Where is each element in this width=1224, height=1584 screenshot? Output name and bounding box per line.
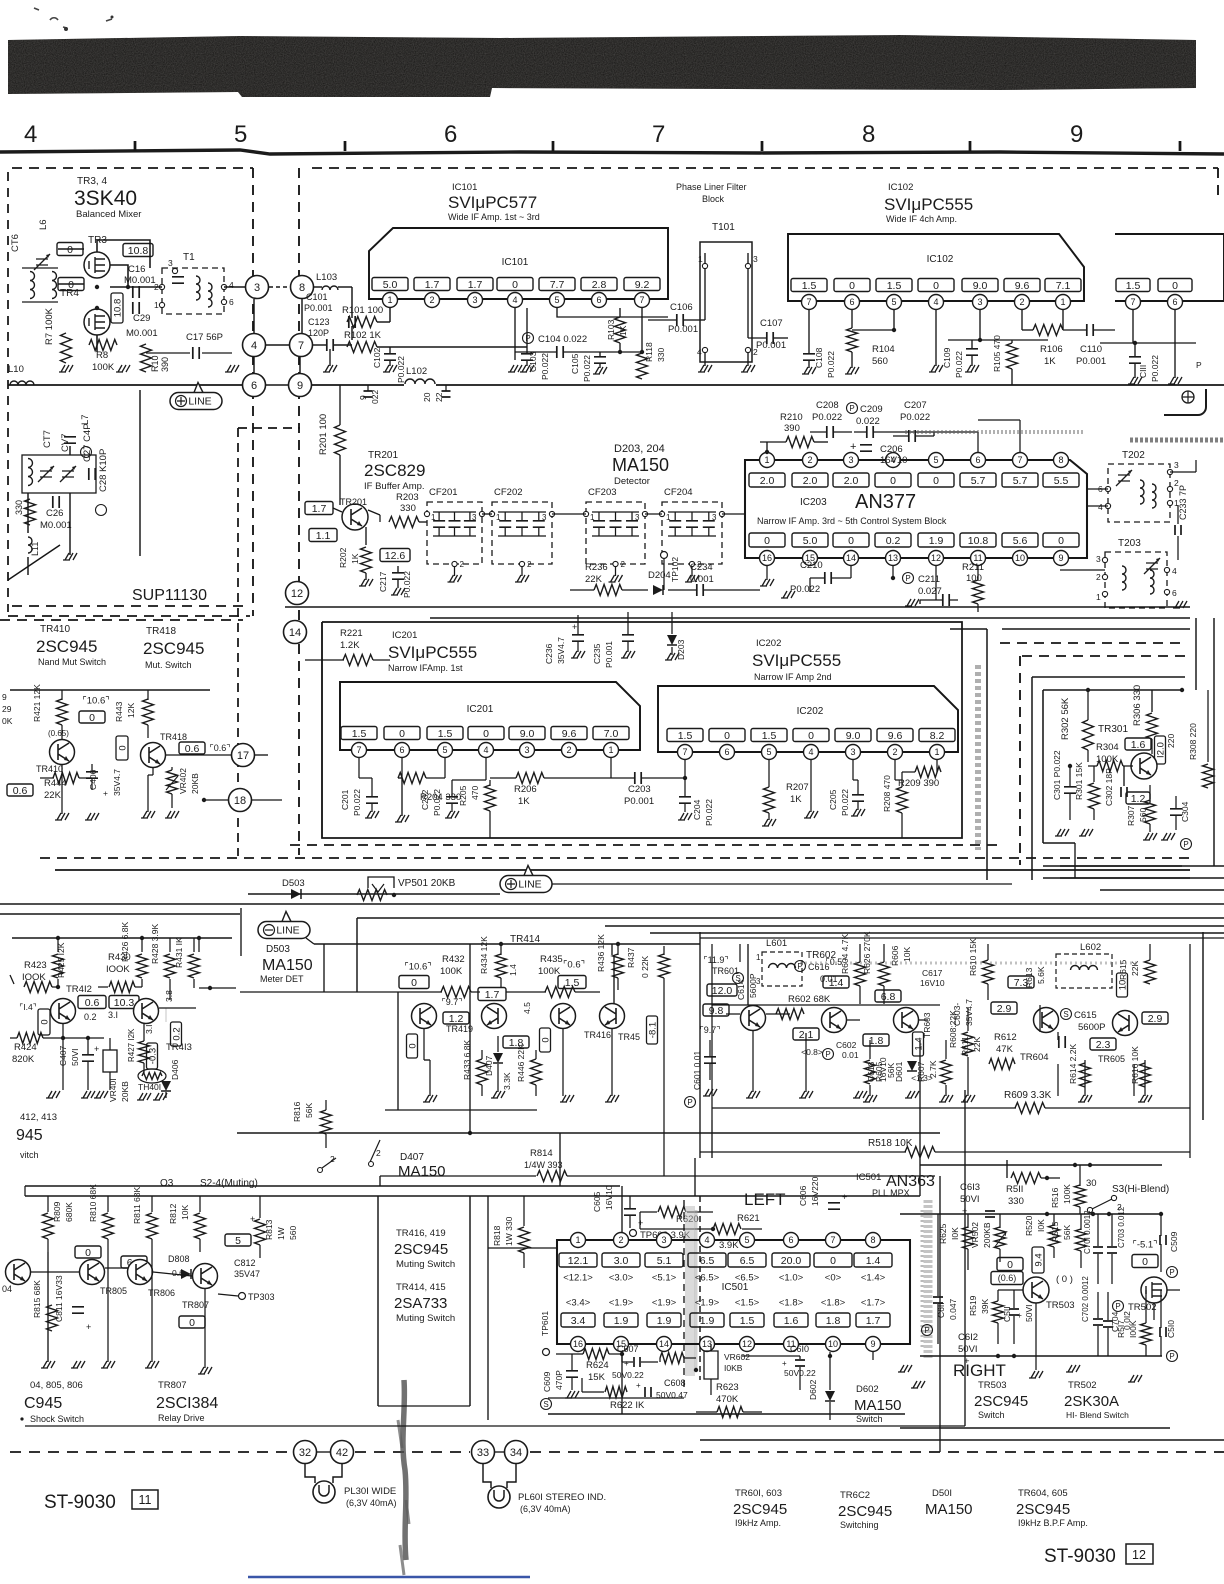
svg-text:R221: R221 <box>340 628 363 639</box>
svg-text:⌜9.7⌝: ⌜9.7⌝ <box>442 997 463 1007</box>
IC501 pin 13 <box>700 1337 715 1352</box>
svg-text:1.7: 1.7 <box>312 503 327 515</box>
svg-text:Narrow IF Amp. 3rd ~ 5th: Narrow IF Amp. 3rd ~ 5th Control System … <box>757 516 947 526</box>
bottom block top rail 1 <box>25 1185 620 1187</box>
svg-text:5.0: 5.0 <box>383 279 398 291</box>
voltage box 10.8 vertical at TR4 <box>111 293 123 323</box>
svg-text:0: 0 <box>85 1247 91 1259</box>
IC101 voltage box 1.7 pin 3 <box>457 278 493 291</box>
svg-text:R626 270K: R626 270K <box>862 931 872 974</box>
svg-text:P: P <box>924 1326 929 1335</box>
svg-text:17: 17 <box>237 750 249 762</box>
svg-text:1W 330: 1W 330 <box>504 1216 514 1246</box>
svg-text:(6,3V 40mA): (6,3V 40mA) <box>346 1498 397 1508</box>
resistor R103 <box>615 317 626 343</box>
svg-text:20: 20 <box>422 392 432 402</box>
vertical feed lines right mid <box>711 944 713 1120</box>
svg-text:5.7: 5.7 <box>1013 475 1028 487</box>
capacitor C107 <box>767 332 773 344</box>
CF202 pin 1 <box>489 511 494 516</box>
svg-text:1: 1 <box>666 513 671 522</box>
IC102 pin 5 <box>887 295 902 310</box>
resistor R304 zigzag <box>1097 761 1123 772</box>
svg-text:Shock Switch: Shock Switch <box>30 1414 84 1424</box>
svg-text:C70I 0.0012: C70I 0.0012 <box>1083 1210 1092 1254</box>
AN377 pin 12 <box>929 551 944 566</box>
wire TR502 legs <box>1153 1303 1155 1320</box>
capacitor C701 <box>1093 1247 1103 1253</box>
transistor TR416 <box>551 1004 576 1029</box>
svg-text:16V220: 16V220 <box>810 1176 820 1206</box>
voltage box 0.2 vertical <box>171 1022 183 1046</box>
svg-text:100K: 100K <box>440 966 463 977</box>
trimmer VR402 <box>167 770 178 794</box>
wire T1 to connector 3 <box>224 286 246 288</box>
svg-text:1.4: 1.4 <box>508 964 518 976</box>
svg-text:TR60I, 603: TR60I, 603 <box>735 1488 782 1499</box>
svg-text:R604 4.7K: R604 4.7K <box>840 934 850 974</box>
resistor R102 <box>347 342 377 353</box>
svg-text:C603-: C603- <box>952 1003 962 1026</box>
IC501 voltage box bottom 1.5 <box>730 1313 764 1327</box>
right block horizontal lines <box>1002 606 1190 608</box>
thermistor TH401 <box>138 1069 166 1083</box>
IC101 pin 1 <box>383 293 398 308</box>
capacitor C605 <box>624 1209 636 1215</box>
svg-text:T202: T202 <box>1122 450 1145 461</box>
svg-text:32: 32 <box>299 1447 311 1459</box>
svg-text:7: 7 <box>356 745 361 755</box>
IC102 pin 4 <box>929 295 944 310</box>
svg-text:vitch: vitch <box>20 1150 39 1160</box>
svg-text:1.7: 1.7 <box>485 989 500 1001</box>
svg-text:2SC945: 2SC945 <box>733 1501 787 1518</box>
svg-text:TP102: TP102 <box>670 557 680 582</box>
resistor R615 <box>1145 960 1156 984</box>
svg-text:<1.8>: <1.8> <box>779 1297 804 1308</box>
svg-text:1.9: 1.9 <box>700 1315 715 1327</box>
svg-text:R443: R443 <box>114 701 124 722</box>
svg-text:1.9: 1.9 <box>929 535 944 547</box>
svg-text:R424: R424 <box>14 1042 37 1053</box>
svg-text:R427 I2K: R427 I2K <box>127 1028 136 1062</box>
grounds TR301 block <box>1055 829 1069 836</box>
capacitor C17 <box>193 347 199 359</box>
svg-text:6: 6 <box>229 297 234 307</box>
IC201 pin 2 <box>562 743 577 758</box>
wire pin3 bus <box>979 310 981 340</box>
transistor TR807 <box>193 1264 218 1289</box>
junction dots main buses <box>0 1583 1 1584</box>
svg-text:P: P <box>849 404 854 413</box>
svg-text:1.4: 1.4 <box>913 1037 924 1050</box>
svg-text:2: 2 <box>621 560 626 569</box>
svg-text:R203: R203 <box>396 492 419 503</box>
TP602 test point <box>630 1230 637 1237</box>
AN377 pin 3 <box>844 453 859 468</box>
ground C17 right <box>225 365 239 372</box>
svg-text:412, 413: 412, 413 <box>20 1112 57 1123</box>
AN377 voltage box 2.0 pin 1 <box>749 473 785 487</box>
svg-text:TR301: TR301 <box>1098 724 1128 735</box>
svg-text:1.5: 1.5 <box>678 730 693 742</box>
svg-text:TR805: TR805 <box>100 1286 127 1296</box>
svg-text:D407: D407 <box>400 1152 424 1163</box>
AN377 voltage box 1.9 pin 12 <box>918 533 954 547</box>
voltage box 0.3 vertical <box>147 1043 159 1069</box>
svg-text:1: 1 <box>756 953 761 962</box>
solid enclosure around narrow IF amps <box>322 622 962 838</box>
svg-text:SVIμPC577: SVIμPC577 <box>448 193 537 212</box>
svg-text:50VI: 50VI <box>960 1194 980 1205</box>
svg-text:6.5: 6.5 <box>740 1255 755 1267</box>
IC101 voltage box 5.0 pin 1 <box>372 278 408 291</box>
capacitor C509 <box>1160 1235 1166 1245</box>
IC201 voltage box 0 pin 4 <box>468 727 504 740</box>
resistor R518 <box>905 1147 935 1158</box>
svg-text:C304: C304 <box>1180 801 1190 822</box>
svg-text:L6: L6 <box>38 219 49 230</box>
svg-text:3: 3 <box>1174 460 1179 470</box>
svg-text:R104: R104 <box>872 344 895 355</box>
svg-text:TR604: TR604 <box>1020 1052 1049 1063</box>
svg-text:8: 8 <box>862 121 875 148</box>
svg-text:1.5: 1.5 <box>352 728 367 740</box>
circled P C611 <box>922 1325 933 1336</box>
svg-text:0: 0 <box>764 535 770 547</box>
voltage box 1.8 low <box>863 1034 889 1046</box>
T101 block <box>700 242 752 362</box>
svg-text:9.0: 9.0 <box>973 280 988 292</box>
svg-text:3: 3 <box>848 455 853 465</box>
svg-text:R105 470: R105 470 <box>992 335 1002 372</box>
svg-text:3: 3 <box>850 747 855 757</box>
svg-text:C602: C602 <box>836 1040 857 1050</box>
svg-text:2.8: 2.8 <box>592 279 607 291</box>
svg-text:2SC945: 2SC945 <box>143 639 204 658</box>
CF204 internal capacitors <box>669 521 681 527</box>
T203 coils <box>1122 566 1126 590</box>
IC501 pin 6 <box>784 1233 799 1248</box>
svg-text:P: P <box>1196 360 1202 370</box>
resistor R431 <box>189 954 200 978</box>
voltage box 6.8 <box>875 990 901 1002</box>
wire 6 to 9 <box>266 384 288 386</box>
AN377 voltage box 2.0 pin 2 <box>792 473 828 487</box>
svg-text:R814: R814 <box>530 1148 553 1159</box>
svg-text:M0.001: M0.001 <box>40 520 72 531</box>
wire base TR201 <box>333 508 342 512</box>
svg-text:1.9: 1.9 <box>657 1315 672 1327</box>
resistor R206 <box>516 773 544 784</box>
svg-text:Wide IF 4ch Amp.: Wide IF 4ch Amp. <box>886 214 957 224</box>
resistor R811 <box>147 1213 158 1239</box>
wire CF202-CF203 via bus <box>552 513 586 515</box>
svg-text:3: 3 <box>524 745 529 755</box>
svg-text:4: 4 <box>229 280 234 290</box>
svg-text:2.0: 2.0 <box>760 475 775 487</box>
transistor TR602b <box>822 1008 847 1033</box>
resistor R421 <box>57 699 68 725</box>
scan speckle noise overall <box>0 1583 1 1584</box>
svg-text:3: 3 <box>168 258 173 268</box>
svg-text:I0K: I0K <box>1036 1219 1046 1232</box>
svg-text:I2.0: I2.0 <box>1155 742 1166 758</box>
svg-text:0.047: 0.047 <box>948 1298 958 1320</box>
svg-text:4.5: 4.5 <box>522 1002 532 1014</box>
svg-text:IC201: IC201 <box>467 704 494 715</box>
svg-text:C123: C123 <box>308 317 330 327</box>
svg-text:0: 0 <box>512 279 518 291</box>
voltage box 10 vertical <box>1117 973 1129 997</box>
capacitor C703 <box>1107 1247 1117 1253</box>
resistor R621 <box>713 1224 741 1235</box>
voltage box 0 mid <box>116 736 128 760</box>
svg-text:+: + <box>638 1218 643 1228</box>
IC101 voltage box 7.7 pin 5 <box>539 278 575 291</box>
svg-text:P0.001: P0.001 <box>304 303 333 313</box>
svg-text:8: 8 <box>870 1235 875 1245</box>
svg-text:1K: 1K <box>1044 356 1056 367</box>
svg-text:6.8: 6.8 <box>881 991 896 1003</box>
svg-text:10.8: 10.8 <box>968 535 989 547</box>
resistor R433 <box>477 1059 488 1085</box>
right block corner vertical x987 <box>986 629 988 880</box>
wire AN377 pin11 down <box>935 566 937 600</box>
svg-text:7: 7 <box>1130 297 1135 307</box>
svg-text:D503: D503 <box>282 878 305 889</box>
svg-text:9: 9 <box>2 692 7 702</box>
svg-text:C16: C16 <box>128 264 145 275</box>
svg-text:0.6: 0.6 <box>185 743 200 755</box>
CF203 pin 3 <box>642 511 647 516</box>
svg-text:3.I: 3.I <box>144 1025 154 1034</box>
voltage box 1.6 <box>1125 738 1151 750</box>
svg-text:10.8: 10.8 <box>112 299 123 318</box>
svg-text:IC101: IC101 <box>502 257 529 268</box>
capacitor C233 <box>1175 525 1181 535</box>
wire IC202 pin4 ground <box>810 760 812 812</box>
svg-text:1.9: 1.9 <box>614 1315 629 1327</box>
svg-text:0.001: 0.001 <box>690 574 714 585</box>
capacitor C406 <box>86 772 98 778</box>
scan noise strip right edge <box>1130 438 1224 443</box>
CF202 ground <box>521 567 523 576</box>
svg-text:5.6K: 5.6K <box>1036 966 1046 984</box>
svg-text:3.3K: 3.3K <box>502 1072 512 1090</box>
svg-text:TR603: TR603 <box>922 1012 932 1038</box>
svg-text:R623: R623 <box>716 1382 739 1393</box>
svg-text:4: 4 <box>1172 566 1177 576</box>
right edge oplus symbol <box>1182 391 1194 403</box>
IC102 voltage box 9.0 pin 3 <box>962 279 998 292</box>
svg-text:56K: 56K <box>1062 1225 1072 1240</box>
svg-text:TR4I2: TR4I2 <box>66 984 92 995</box>
IC201 voltage box 0 pin 6 <box>384 727 420 740</box>
svg-text:0.027: 0.027 <box>918 586 942 597</box>
TR412 cluster top rail <box>12 937 232 939</box>
svg-text:R609 3.3K: R609 3.3K <box>1004 1090 1052 1101</box>
svg-text:Narrow IF Amp 2nd: Narrow IF Amp 2nd <box>754 672 832 682</box>
svg-text:TR503: TR503 <box>978 1380 1007 1391</box>
svg-text:L102: L102 <box>406 366 427 377</box>
svg-text:1: 1 <box>154 300 159 310</box>
svg-text:+: + <box>636 1381 641 1390</box>
right IC voltage box 0 pin 6 <box>1158 279 1192 292</box>
svg-text:TR418: TR418 <box>160 732 187 742</box>
svg-text:29: 29 <box>2 704 12 714</box>
svg-text:7.7: 7.7 <box>550 279 565 291</box>
svg-text:R614 2.2K: R614 2.2K <box>1068 1044 1078 1084</box>
svg-text:<1.8>: <1.8> <box>821 1297 846 1308</box>
svg-text:1.5: 1.5 <box>887 280 902 292</box>
long horizontal bus y933 <box>650 932 1224 934</box>
resistor R211 <box>973 580 984 604</box>
svg-text:1.7: 1.7 <box>866 1315 881 1327</box>
wires TR601 row <box>726 1013 740 1015</box>
resistor R436 <box>613 954 624 978</box>
AN377 voltage box 0 pin 9 <box>1043 533 1079 547</box>
CF204 ground <box>691 567 693 576</box>
wire CF204 to AN377 <box>722 513 745 515</box>
circled dot C27 <box>81 447 92 458</box>
svg-text:1: 1 <box>1060 297 1065 307</box>
IC501 pin 15 <box>614 1337 629 1352</box>
svg-text:IOOK: IOOK <box>106 964 130 975</box>
svg-text:Narrow IFAmp. 1st: Narrow IFAmp. 1st <box>388 663 463 673</box>
svg-text:+: + <box>842 1192 847 1202</box>
capacitor C29 <box>133 302 139 314</box>
IC101 pin 2 <box>425 293 440 308</box>
muting rail top <box>314 943 700 945</box>
connector circle 32 <box>294 1441 317 1464</box>
IC101 pin 6 <box>592 293 607 308</box>
capacitor C301 <box>1064 787 1076 793</box>
svg-text:2SC945: 2SC945 <box>394 1241 448 1258</box>
resistor R430 <box>109 982 135 993</box>
svg-text:R432: R432 <box>442 954 465 965</box>
svg-text:Detector: Detector <box>614 476 650 487</box>
connector circle 9 <box>289 374 312 397</box>
svg-text:IC102: IC102 <box>927 254 954 265</box>
bottom block left rail <box>24 1186 26 1196</box>
IC202 voltage box 9.0 pin 3 <box>835 729 871 742</box>
capacitor C104 <box>557 346 563 358</box>
resistor R620 <box>658 1207 686 1218</box>
AN377 top pin wire <box>745 459 1070 461</box>
left vertical border bottom section <box>0 1583 1 1584</box>
svg-text:Block: Block <box>702 194 725 204</box>
svg-text:1.5: 1.5 <box>1126 280 1141 292</box>
svg-text:6: 6 <box>596 295 601 305</box>
svg-text:C26: C26 <box>46 508 63 519</box>
svg-text:P0.022: P0.022 <box>704 799 714 826</box>
capacitor C702 <box>1093 1319 1103 1325</box>
ground under C123 <box>323 365 337 372</box>
FET TR3 <box>84 252 110 278</box>
svg-text:<0>: <0> <box>825 1272 842 1283</box>
IC202 pin 7 <box>678 745 693 760</box>
resistor R424 <box>17 1033 43 1044</box>
svg-text:TR502: TR502 <box>1068 1380 1097 1391</box>
svg-text:<3.0>: <3.0> <box>609 1272 634 1283</box>
resistor R426 <box>137 954 148 978</box>
svg-text:C605: C605 <box>592 1191 602 1212</box>
connector circle 17 <box>232 744 255 767</box>
AN377 voltage box 0.2 pin 13 <box>875 533 911 547</box>
scan smudge column <box>403 1380 406 1560</box>
plus-LINE tag front end <box>194 383 203 393</box>
svg-text:6: 6 <box>975 455 980 465</box>
connector circle 7 <box>290 334 313 357</box>
svg-text:0: 0 <box>117 745 128 750</box>
wire TR413 collector right <box>159 1007 196 1009</box>
svg-text:P: P <box>825 1050 830 1059</box>
svg-text:R602 68K: R602 68K <box>788 994 831 1005</box>
svg-text:C109: C109 <box>942 347 952 368</box>
svg-text:4: 4 <box>697 347 702 357</box>
IC102 pin 2 <box>1015 295 1030 310</box>
svg-text:330: 330 <box>14 500 24 515</box>
IC102 pin 3 <box>973 295 988 310</box>
svg-text:C108: C108 <box>814 347 824 368</box>
circled P C104 label <box>523 333 534 344</box>
svg-text:5: 5 <box>235 1235 241 1247</box>
svg-text:P0.022: P0.022 <box>840 789 850 816</box>
svg-text:2SK30A: 2SK30A <box>1064 1393 1119 1410</box>
svg-text:R437: R437 <box>626 947 636 968</box>
IC501 voltage box 12.1 <box>559 1253 597 1267</box>
connector circle 3 <box>246 276 269 299</box>
svg-text:2.9: 2.9 <box>1148 1013 1163 1025</box>
svg-text:1.5: 1.5 <box>740 1315 755 1327</box>
svg-text:3: 3 <box>635 513 640 522</box>
CF201 pin 3 <box>479 511 484 516</box>
dashed outline AN363 left <box>699 1196 701 1380</box>
wire into T101 from C106 <box>700 319 705 321</box>
svg-text:P0.022: P0.022 <box>540 353 550 380</box>
IC102 pin 1 <box>1056 295 1071 310</box>
svg-text:C606: C606 <box>798 1185 808 1206</box>
AN377 pin16 ground <box>766 566 768 580</box>
svg-text:TR502: TR502 <box>1128 1302 1157 1313</box>
voltage box 1.1 TR201 <box>309 529 337 542</box>
svg-text:P: P <box>1169 1352 1174 1361</box>
resistor R809 <box>43 1213 54 1239</box>
voltage box 12.6 at C217 <box>380 549 410 562</box>
resistor R308 <box>1203 764 1214 788</box>
svg-text:2SA733: 2SA733 <box>394 1295 447 1312</box>
svg-text:1.5: 1.5 <box>565 977 580 989</box>
svg-text:3: 3 <box>712 513 717 522</box>
capacitor C302 <box>1121 787 1127 797</box>
CF203 pin 2 <box>613 561 618 566</box>
svg-text:10K: 10K <box>902 947 912 962</box>
svg-text:Wide IF Amp. 1st ~ 3rd: Wide IF Amp. 1st ~ 3rd <box>448 212 540 222</box>
svg-text:1: 1 <box>496 513 501 522</box>
L601 dashed box <box>762 952 802 986</box>
svg-text:C209: C209 <box>860 404 883 415</box>
resistor R604 <box>855 962 866 986</box>
plus-LINE tag meter <box>524 866 533 876</box>
wire after LINE tag <box>552 883 1012 885</box>
capacitor C119 <box>364 391 373 397</box>
voltage box 1.4 TR602c <box>823 976 849 988</box>
svg-text:R103: R103 <box>606 319 616 340</box>
ruler tick <box>761 141 764 151</box>
svg-text:T1: T1 <box>183 252 195 263</box>
svg-text:0: 0 <box>848 535 854 547</box>
